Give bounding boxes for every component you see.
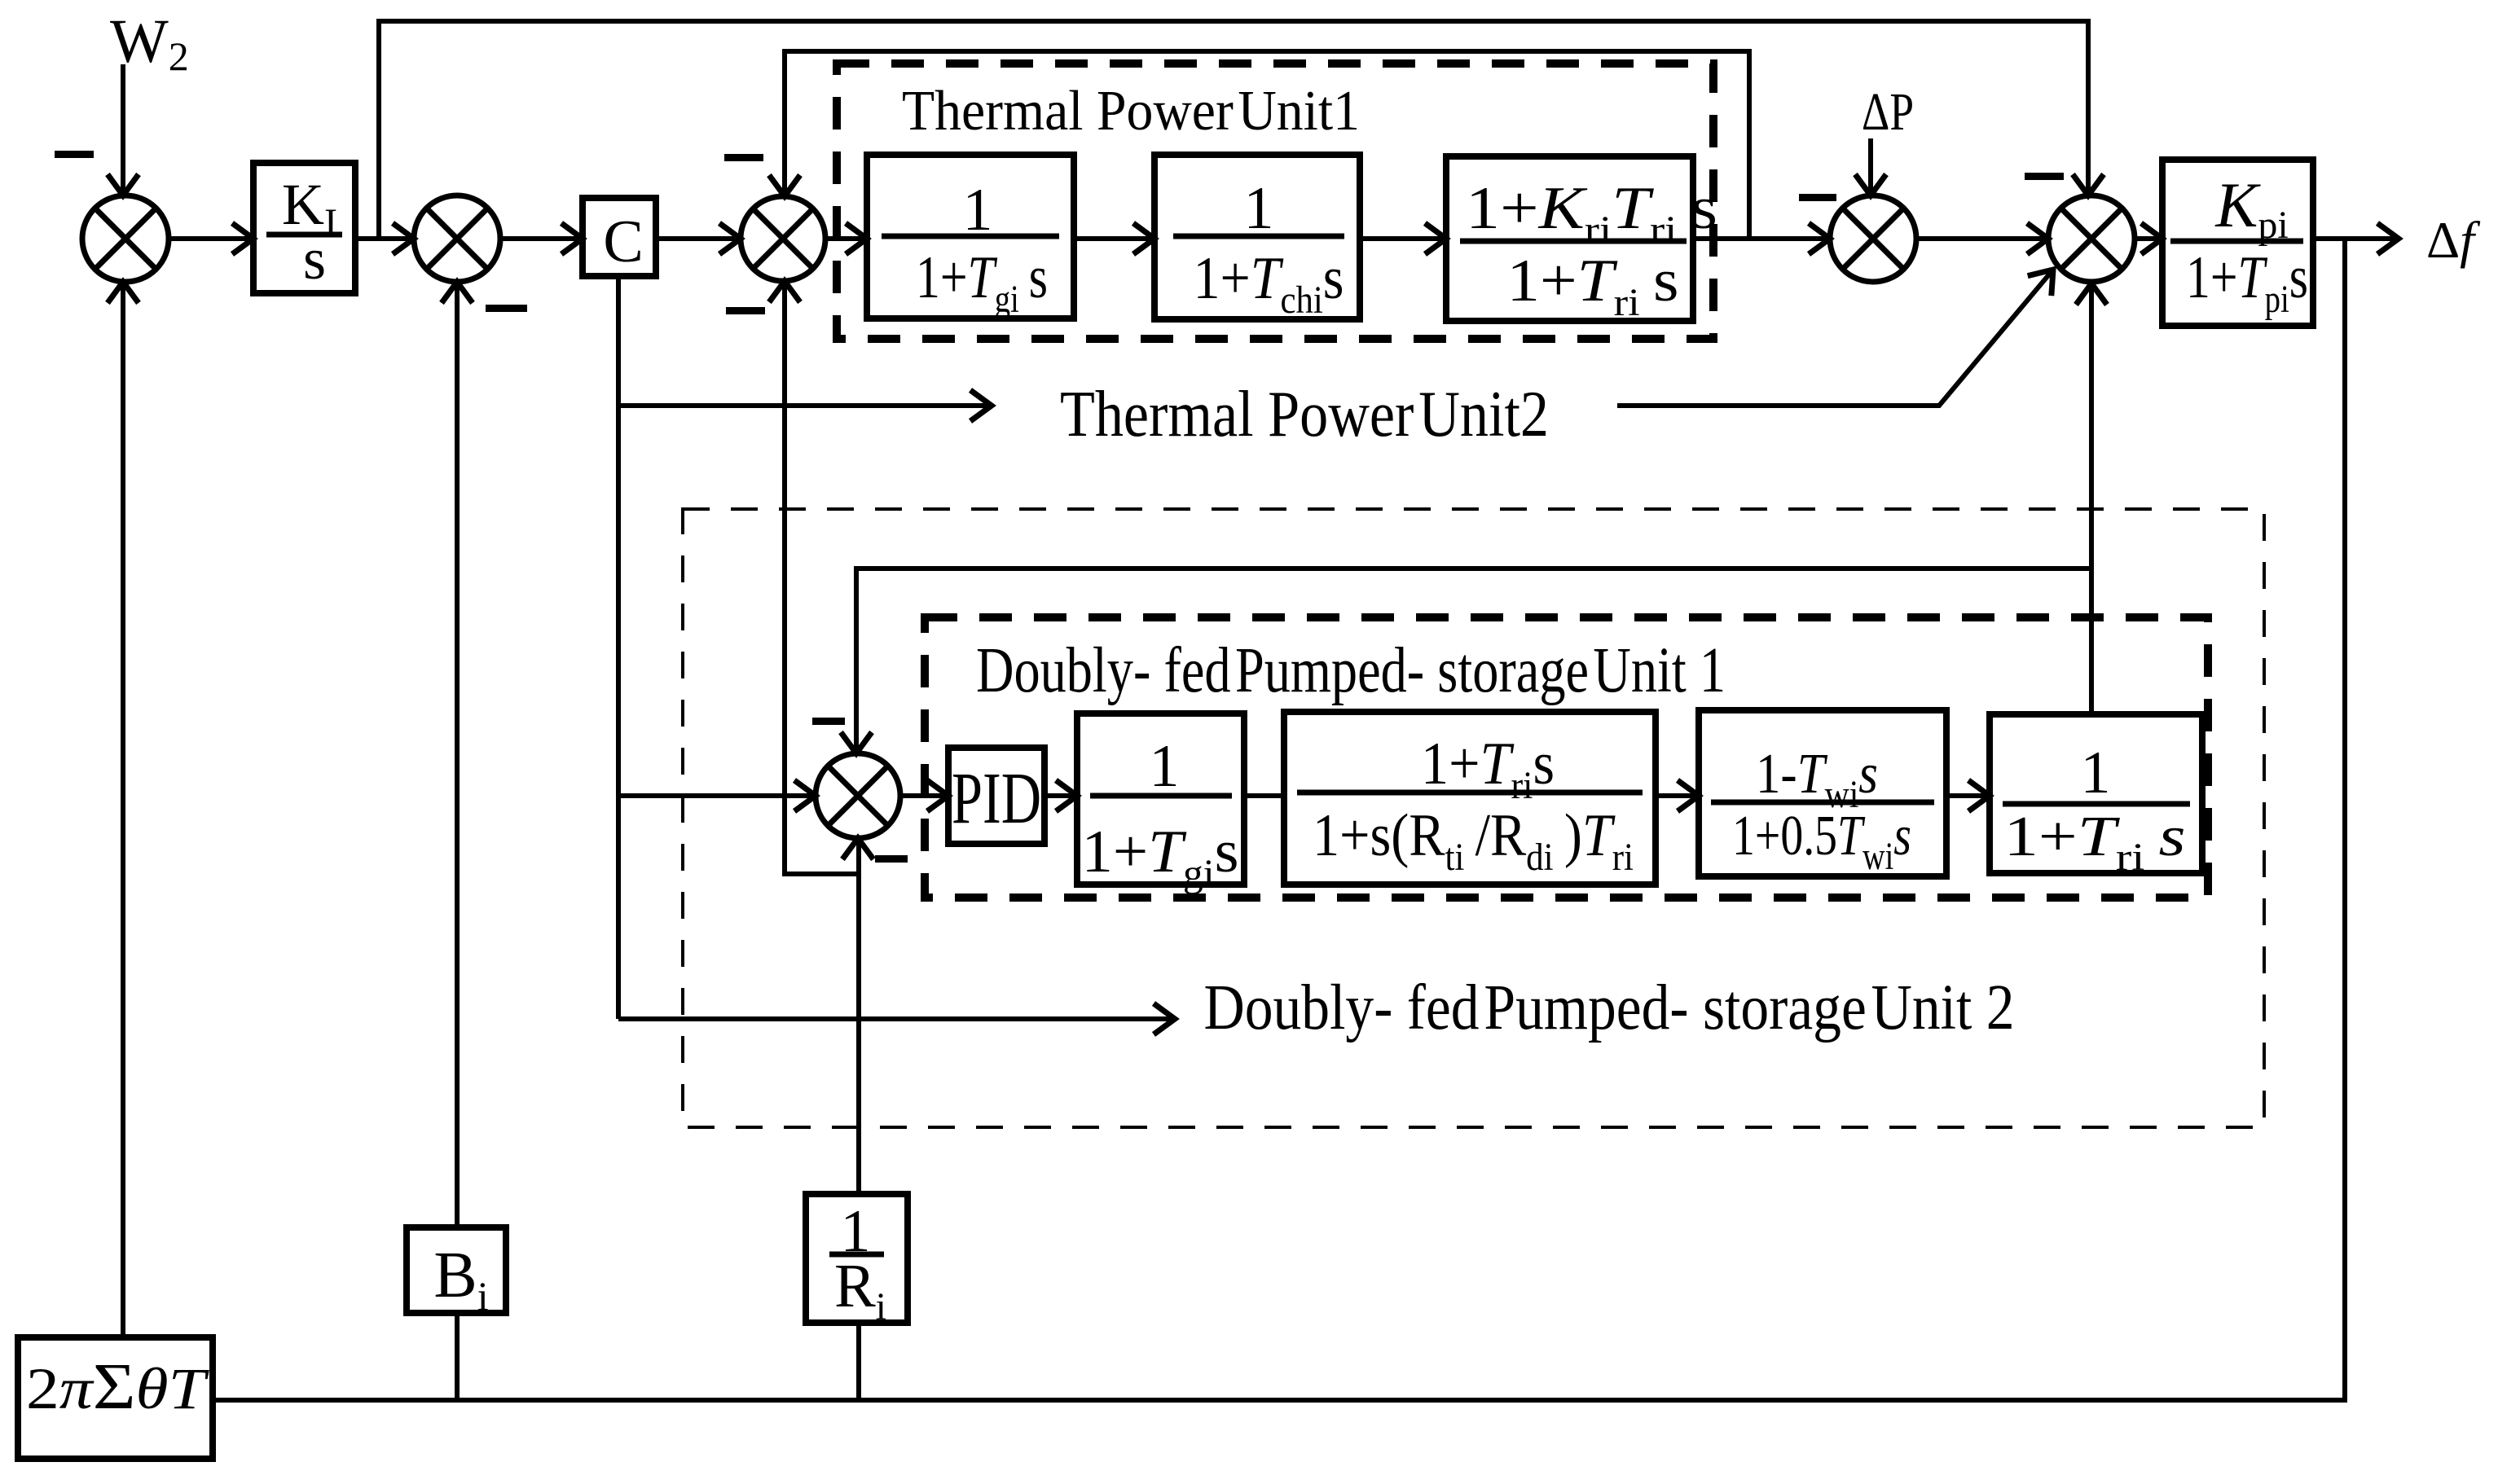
arrow dP into J4 top (1855, 174, 1886, 195)
wire dP input (1868, 138, 1873, 195)
arrow into P2 (1056, 780, 1077, 811)
summing junction J4 (1830, 195, 1916, 282)
wire J2 to C block (500, 236, 583, 241)
wire df feedback down and bottom bus (213, 239, 2345, 1400)
arrow Bi into J2 bottom (442, 282, 473, 303)
summing junction J1 (82, 195, 169, 282)
arrow into J2 (393, 223, 414, 254)
wire branch to J6 left (618, 793, 816, 798)
summing junction J5 (2048, 195, 2135, 282)
svg-text:1+Tgi​s: 1+Tgi​s (1082, 819, 1239, 895)
arrow into PID (927, 780, 948, 811)
svg-text:Δf: Δf (2426, 211, 2481, 269)
wire branch to pumped unit 2 label (618, 1016, 1175, 1021)
wire P4 to P5 (1946, 793, 1990, 798)
wire Ri branch to J3 bottom (785, 283, 859, 874)
summing junction J2 (414, 195, 500, 282)
block 2pi sum theta T (18, 1337, 213, 1459)
doubly-fed pumped-storage unit 1 inner dashed box (925, 617, 2208, 898)
label dP (1862, 82, 1914, 142)
label Doubly-fed Pumped-storage Unit 1 (976, 635, 1726, 706)
wire P5 top to J5 bottom (2089, 285, 2094, 714)
svg-text:1+Tri​ s: 1+Tri​ s (2004, 806, 2186, 879)
wire PID to P2 (1044, 793, 1077, 798)
block 1/Ri droop (806, 1194, 908, 1328)
arrow reheat feedback into J3 top (769, 175, 800, 196)
svg-text:Thermal Power Unit2: Thermal Power Unit2 (1060, 379, 1549, 450)
svg-text:1: 1 (2081, 740, 2111, 806)
arrow into J4 (1809, 223, 1830, 254)
wire C tap vertical (616, 276, 621, 1019)
block Bi frequency bias (407, 1227, 506, 1319)
arrow W2 into J1 (108, 174, 139, 195)
arrow into J3 (719, 223, 741, 254)
svg-text:Doubly- fed Pumped- storage Un: Doubly- fed Pumped- storage Unit 2 (1204, 973, 2015, 1043)
minus sign J4 top input (1799, 194, 1836, 201)
minus sign J5 top input (2025, 173, 2064, 180)
block C (583, 198, 656, 276)
wire W2 input (121, 64, 125, 194)
wire 2pi block to J1 bottom (121, 283, 125, 1337)
wire thermal block2 to block3 (1360, 236, 1446, 241)
summing junction J3 (741, 196, 825, 281)
summing junction J6 pumped-storage (816, 753, 900, 838)
pumped block 2: 1/(1+Tgi s) (1077, 713, 1244, 895)
minus sign W2 input (55, 151, 94, 158)
label df (2426, 211, 2481, 269)
svg-text:Thermal Power Unit1: Thermal Power Unit1 (902, 80, 1360, 143)
arrow into Kpi block (2141, 223, 2162, 254)
label W2 (110, 7, 189, 79)
block Kpi/(1+Tpi s) power system (2162, 160, 2313, 326)
wire pumped feedback to J6 top (856, 569, 2091, 755)
arrow P5 output into J5 bottom (2076, 283, 2107, 305)
arrow into P4 (1678, 780, 1699, 811)
arrow pumped feedback into J6 top (841, 732, 872, 753)
wire bus to Ri block (856, 1323, 861, 1400)
arrow into thermal block1 (846, 223, 867, 254)
wire P3 to P4 (1656, 793, 1699, 798)
arrow top feedback into J5 top (2073, 174, 2104, 195)
thermal block 3: (1+Kri Tri s)/(1+Tri s) (1446, 156, 1717, 324)
minus sign J3 top input (724, 154, 763, 161)
svg-text:s: s (303, 226, 326, 292)
arrow Ri into J6 bottom (842, 838, 873, 859)
arrow 2pi into J1 bottom (108, 282, 139, 303)
arrow pumped unit2 label (1154, 1003, 1175, 1034)
arrow thermal unit2 label (970, 390, 992, 421)
label Thermal Power Unit2 (1060, 379, 1549, 450)
thermal block 1: 1/(1+Tgi s) (867, 155, 1074, 321)
svg-text:1: 1 (1244, 175, 1274, 242)
arrow into KI block (232, 223, 253, 254)
wire C to J3 (656, 236, 741, 241)
svg-text:C: C (603, 209, 643, 275)
svg-text:Doubly- fed Pumped- storage Un: Doubly- fed Pumped- storage Unit 1 (976, 635, 1726, 706)
arrow Ri into J3 bottom (769, 281, 800, 302)
wire J4 to J5 (1916, 236, 2048, 241)
svg-text:PID: PID (952, 758, 1041, 839)
arrow into thermal block2 (1133, 223, 1154, 254)
doubly-fed pumped-storage outer dashed box (683, 509, 2264, 1127)
minus sign J3 bottom input (726, 307, 765, 314)
pumped block 4: (1-Twi s)/(1+0.5Twi s) (1699, 710, 1946, 878)
arrow into P5 (1968, 780, 1990, 811)
arrow into C (561, 223, 583, 254)
svg-text:1+Tri​s: 1+Tri​s (1421, 731, 1555, 807)
svg-text:1+s(Rti​ /Rdi​ )Tri​: 1+s(Rti​ /Rdi​ )Tri​ (1313, 802, 1634, 879)
label Thermal Power Unit1 (902, 80, 1360, 143)
svg-text:1+Tpi​s: 1+Tpi​s (2186, 244, 2308, 321)
svg-text:ΔP: ΔP (1862, 82, 1914, 142)
svg-text:1: 1 (1150, 733, 1180, 800)
wire thermal unit2 output to J5 (1617, 270, 2053, 406)
wire Ri block up to J6 bottom (856, 840, 861, 1194)
label Doubly-fed Pumped-storage Unit 2 (1204, 973, 2015, 1043)
thermal power unit 1 dashed box (837, 64, 1713, 339)
minus sign J6 bottom input (875, 855, 908, 863)
block PID (948, 748, 1044, 844)
svg-text:2πΣθT: 2πΣθT (26, 1351, 210, 1423)
wire J1 to KI block (169, 236, 253, 241)
arrow C branch into J6 left (794, 780, 816, 811)
svg-text:1+Tri​ s: 1+Tri​ s (1507, 248, 1679, 324)
wire thermal reheat feedback to J3 top (785, 51, 1749, 239)
minus sign J6 top input (812, 718, 845, 725)
wire branch to thermal unit 2 label (618, 403, 992, 408)
arrow into thermal block3 (1425, 223, 1446, 254)
wire top feedback from KI output to J5 top (379, 21, 2088, 239)
pumped block 3: (1+Tri s)/(1+s(Rti/Rdi)Tri) (1284, 712, 1656, 885)
wire J6 to PID (900, 793, 948, 798)
arrow df output (2377, 223, 2399, 254)
arrow into J5 left (2027, 223, 2048, 254)
wire Bi block to J2 bottom (455, 283, 460, 1313)
wire J3 to thermal block 1 (825, 236, 867, 241)
wire thermal block1 to block2 (1074, 236, 1154, 241)
svg-text:1+Tgi​ s: 1+Tgi​ s (916, 244, 1048, 321)
wire Kpi to df output (2313, 236, 2399, 241)
wire thermal block3 to J4 (1693, 236, 1830, 241)
wire bus to Bi block (455, 1227, 460, 1400)
pumped block 5: 1/(1+Tri s) (1990, 714, 2202, 879)
wire P2 to P3 (1244, 793, 1284, 798)
block KI/s integrator (253, 163, 355, 293)
arrow thermal unit2 output into J5 (2028, 270, 2053, 296)
wire KI block to J2 (355, 236, 414, 241)
minus sign J2 bottom input (486, 305, 527, 312)
thermal block 2: 1/(1+Tchi s) (1154, 155, 1360, 322)
wire J5 to Kpi block (2135, 236, 2162, 241)
